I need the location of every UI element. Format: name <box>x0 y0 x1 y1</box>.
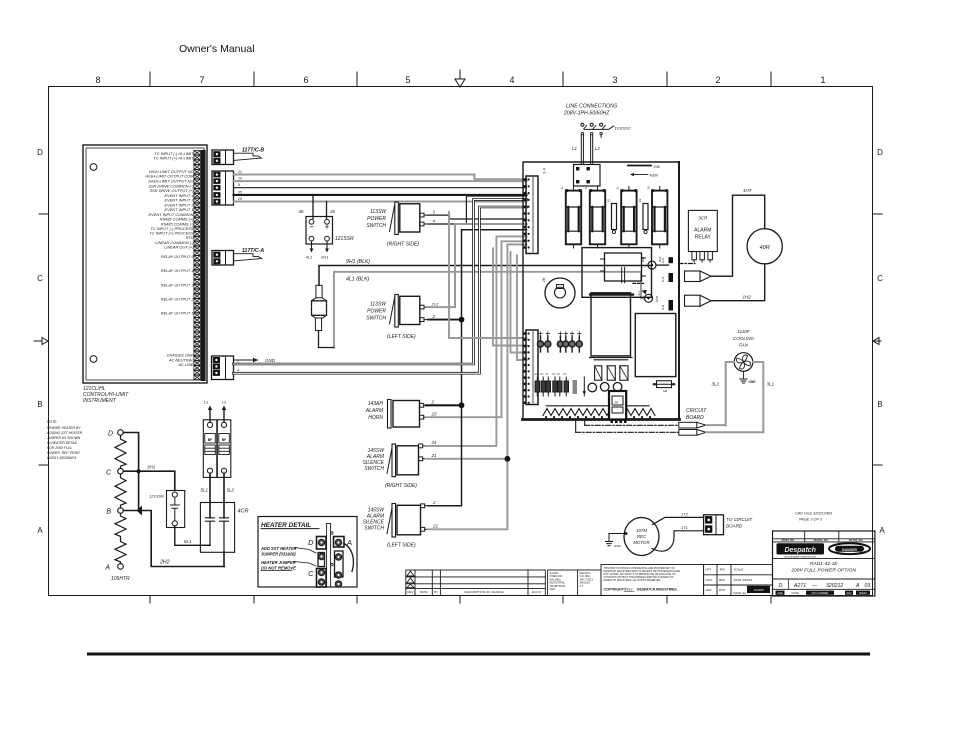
svg-text:A: A <box>104 565 110 572</box>
motor ground <box>606 534 626 546</box>
revision table <box>406 570 546 595</box>
svg-text:D: D <box>108 431 113 438</box>
svg-text:DATE: DATE <box>420 590 428 594</box>
svg-text:R1: R1 <box>607 198 611 202</box>
power switch 113SW left side <box>390 295 429 328</box>
wire from node D <box>123 433 138 511</box>
connector to circuit board <box>704 515 724 535</box>
wire gray to lower board connector d <box>517 256 527 361</box>
svg-text:BF: BF <box>208 438 213 442</box>
svg-text:RELAY OUTPUT 6: RELAY OUTPUT 6 <box>161 254 195 259</box>
svg-text:L2: L2 <box>222 400 227 405</box>
svg-text:1H1: 1H1 <box>661 257 665 263</box>
solid-state relay 121SSR <box>306 217 333 245</box>
buzzer 2M <box>545 278 575 308</box>
svg-text:SUN: SUN <box>655 296 659 302</box>
zone column numbers top <box>95 75 825 85</box>
svg-text:www.despatch-industries.com: www.despatch-industries.com <box>784 556 816 559</box>
center arrow marker left border <box>34 338 48 345</box>
svg-text:113SW: 113SW <box>370 209 387 215</box>
svg-text:REWIRE HEATER BY: REWIRE HEATER BY <box>47 426 81 430</box>
node 117T/C-A flag <box>234 254 262 261</box>
svg-text:21: 21 <box>237 170 242 174</box>
lug base 1H2 <box>669 300 674 311</box>
wire L1 double drop <box>581 135 583 165</box>
title block <box>773 531 875 596</box>
node 4L1 arrow below 121SSR <box>311 241 313 248</box>
mounting hole bottom <box>90 356 97 363</box>
svg-text:LINEAR OUT (+): LINEAR OUT (+) <box>164 245 194 250</box>
snubber 121SSR lower <box>167 491 185 528</box>
svg-text:TC INPUT (+) HI-LIMIT: TC INPUT (+) HI-LIMIT <box>153 155 194 160</box>
wire 1T1 <box>652 531 704 551</box>
svg-text:3H1: 3H1 <box>147 465 156 470</box>
svg-text:40R: 40R <box>760 245 770 251</box>
svg-text:1H1: 1H1 <box>661 276 665 282</box>
svg-text:2: 2 <box>432 314 436 319</box>
circuit breaker L1 pole <box>203 420 217 478</box>
svg-text:ADD SST HEATER: ADD SST HEATER <box>260 546 297 551</box>
wire gray to lower board connector c <box>511 252 527 353</box>
svg-text:3L2: 3L2 <box>712 382 720 387</box>
svg-text:2N: 2N <box>647 186 651 189</box>
svg-text:GND: GND <box>749 380 757 384</box>
wire 1H2 <box>711 264 765 301</box>
capacitor C2 inside 4CR <box>220 518 229 553</box>
wire 5L1 from snubber <box>175 526 210 545</box>
svg-text:(LEFT SIDE): (LEFT SIDE) <box>387 334 416 340</box>
wire 21 right switch <box>426 458 507 460</box>
heater 105HTR node D <box>118 430 124 436</box>
svg-text:9: 9 <box>238 183 240 187</box>
svg-text:1T2: 1T2 <box>681 512 689 517</box>
fuse 1FU inline <box>312 285 335 347</box>
svg-text:121SSR: 121SSR <box>335 236 354 242</box>
sign-off table <box>704 565 773 596</box>
junction dot 113SW-L pin2 <box>459 317 465 323</box>
svg-text:C: C <box>877 274 883 283</box>
svg-text:RELAY OUTPUT 3: RELAY OUTPUT 3 <box>161 282 195 287</box>
svg-text:7: 7 <box>199 75 204 85</box>
svg-text:35: 35 <box>238 190 242 194</box>
svg-text:4L1: 4L1 <box>637 291 641 296</box>
wire 5L2 breaker down <box>223 473 225 518</box>
dash-dot wire under board lower <box>576 431 679 433</box>
svg-text:D: D <box>779 583 783 589</box>
circuit breaker L2 pole <box>217 420 231 478</box>
connector 117T/C-A <box>212 251 234 266</box>
svg-text:RPS: RPS <box>719 578 725 582</box>
svg-text:D: D <box>308 538 314 547</box>
svg-text:MOTOR: MOTOR <box>633 540 650 545</box>
svg-text:3L1: 3L1 <box>767 382 775 387</box>
svg-text:107M: 107M <box>636 528 647 533</box>
svg-text:6: 6 <box>303 75 308 85</box>
transformer T1 <box>591 293 631 356</box>
wire 2 alarm horn <box>426 404 462 406</box>
svg-text:21: 21 <box>431 453 438 458</box>
svg-text:2: 2 <box>715 75 720 85</box>
svg-text:4CR: 4CR <box>238 509 249 515</box>
svg-text:5L2: 5L2 <box>227 488 235 493</box>
zone tick marks left border <box>39 214 48 465</box>
svg-text:DESPATCH INDUSTRIES.: DESPATCH INDUSTRIES. <box>637 588 678 592</box>
svg-text:A: A <box>855 583 860 589</box>
svg-text:RTS: RTS <box>719 588 725 592</box>
svg-text:A T: A T <box>580 584 584 588</box>
svg-text:1T1: 1T1 <box>681 525 688 530</box>
tiny board reference labels <box>543 167 651 202</box>
svg-text:5: 5 <box>405 75 410 85</box>
relay J3 <box>609 391 626 420</box>
proprietary legal block <box>601 565 704 596</box>
cooling fan symbol <box>734 353 753 372</box>
svg-text:GND: GND <box>265 358 276 363</box>
svg-text:2L2: 2L2 <box>431 302 439 307</box>
svg-text:4L1 (BLK): 4L1 (BLK) <box>346 277 370 283</box>
connector J5 five-wire <box>212 171 234 205</box>
node L2 arrow above breaker <box>223 410 225 422</box>
svg-text:35: 35 <box>330 209 336 214</box>
heater 105HTR node C <box>118 468 124 474</box>
varistor between F2/F3 <box>612 204 617 230</box>
svg-text:J6: J6 <box>543 167 546 171</box>
thick footer rule <box>87 653 870 656</box>
svg-text:ADDING SST HEATER: ADDING SST HEATER <box>46 431 83 435</box>
wire 1T2 <box>653 517 704 524</box>
svg-text:320212: 320212 <box>826 583 843 589</box>
heater terminal stack left <box>317 537 327 588</box>
wire 2 left silence switch <box>428 230 527 506</box>
svg-text:PAGE 3 OF 3: PAGE 3 OF 3 <box>799 518 823 522</box>
blower motor 40R <box>747 229 782 264</box>
svg-text:DO NOT REMOVE: DO NOT REMOVE <box>261 565 296 570</box>
alarm horn 143AH <box>388 400 427 429</box>
capacitor unit 4CR <box>200 503 234 553</box>
svg-text:2012: 2012 <box>625 588 633 592</box>
svg-text:C: C <box>308 569 314 578</box>
svg-text:L1: L1 <box>204 400 208 405</box>
board connector J1 upper left <box>526 176 538 254</box>
svg-text:REC: REC <box>637 534 647 539</box>
svg-text:C: C <box>37 274 43 283</box>
power switch 113SW right side <box>390 202 429 235</box>
heater terminal stack right <box>334 537 345 588</box>
resistor R20 horizontal <box>653 383 675 385</box>
wire 10 <box>234 180 527 182</box>
fuse F2 <box>590 186 606 248</box>
svg-text:B: B <box>37 400 42 409</box>
svg-text:POWER: POWER <box>367 309 386 315</box>
svg-text:AC LINE: AC LINE <box>177 362 194 367</box>
svg-text:21: 21 <box>432 524 439 529</box>
wire L2 double drop <box>591 135 593 165</box>
svg-text:117T/C-B: 117T/C-B <box>242 147 264 153</box>
svg-text:3CR: 3CR <box>698 216 708 221</box>
sheet border frame <box>49 87 873 596</box>
svg-text:BF: BF <box>222 438 227 442</box>
curved jumper wire in heater detail <box>344 544 353 572</box>
wire 2 left switch <box>428 319 462 321</box>
svg-text:8: 8 <box>95 75 100 85</box>
transistor Q2 <box>600 383 609 392</box>
wire 9H1 (BLK) <box>319 266 651 286</box>
tiny rotated labels 9H1 BLK / 4L1 BLK <box>637 256 662 302</box>
wire 20 <box>234 201 527 203</box>
svg-text:10: 10 <box>238 177 242 181</box>
svg-text:JRG: JRG <box>719 568 726 572</box>
heater resistor B-A upper <box>115 513 126 539</box>
svg-text:RELAY OUTPUT 4: RELAY OUTPUT 4 <box>161 268 195 273</box>
heater resistor C-B <box>115 474 126 508</box>
svg-text:DESPATCH INDUSTRIES. ALL RIGHT: DESPATCH INDUSTRIES. ALL RIGHTS RESERVED… <box>604 579 662 582</box>
svg-text:SWITCH: SWITCH <box>366 316 386 322</box>
Despatch logo <box>777 543 825 554</box>
wire 35 drop to 121SSR <box>326 202 328 219</box>
motor 107M <box>624 518 659 556</box>
wire 21 left silence switch <box>428 245 527 530</box>
svg-text:A: A <box>346 538 352 547</box>
board input terminal block <box>574 165 601 187</box>
wire 35 <box>234 194 527 196</box>
dashed link on sub-board <box>633 282 644 284</box>
svg-text:REV: REV <box>407 590 413 594</box>
connector 117T/C-B <box>212 150 234 165</box>
svg-text:117T/C-A: 117T/C-A <box>242 248 264 254</box>
svg-text:SERIAL NO.: SERIAL NO. <box>814 538 829 542</box>
svg-text:REV: REV <box>846 592 851 595</box>
wire number labels <box>237 170 242 201</box>
partner oval logo <box>829 543 870 554</box>
terminal strip of instrument <box>201 150 206 381</box>
wire gray to lower board connector b <box>493 249 527 346</box>
wire 3 <box>428 215 527 219</box>
svg-text:5L1: 5L1 <box>184 539 192 544</box>
svg-text:SCALE: SCALE <box>734 568 744 572</box>
svg-text:J3: J3 <box>614 401 618 405</box>
transformer T2 <box>635 314 676 377</box>
svg-text:JUMPER (031926): JUMPER (031926) <box>261 552 296 557</box>
svg-text:A: A <box>37 526 43 535</box>
heater resistor B-A lower <box>115 539 126 564</box>
svg-text:3: 3 <box>433 210 436 215</box>
node 2H1 arrow below 121SSR <box>326 241 328 248</box>
center arrow marker right border <box>873 338 881 345</box>
svg-text:101DISC: 101DISC <box>615 126 631 131</box>
svg-text:2L: 2L <box>616 186 620 189</box>
svg-text:APP: APP <box>706 588 712 592</box>
svg-text:(LEFT SIDE): (LEFT SIDE) <box>387 543 416 549</box>
wire 2L2 <box>428 224 527 307</box>
svg-text:1: 1 <box>820 75 825 85</box>
heater 105HTR node A <box>118 564 124 570</box>
svg-text:IN HEATER DETAIL: IN HEATER DETAIL <box>47 441 78 445</box>
terminal 9H1 on sub-board <box>648 261 656 269</box>
svg-text:A: A <box>879 526 885 535</box>
dashed tie from board to 3CR pins <box>679 263 695 265</box>
svg-text:BY: BY <box>434 590 438 594</box>
svg-text:B: B <box>106 509 111 516</box>
center arrow marker top border <box>455 70 465 87</box>
node 117T/C-B flag <box>234 153 262 160</box>
wire 3L2 fan left <box>726 362 735 425</box>
terminal 4L1 on sub-board <box>645 294 653 302</box>
svg-text:36: 36 <box>298 209 304 214</box>
svg-text:SWITCH: SWITCH <box>364 466 384 472</box>
svg-text:RAD1-42-1E: RAD1-42-1E <box>810 561 838 567</box>
wire 3H1 from node C <box>123 471 175 489</box>
junction dot 145SW wire21 <box>505 456 511 462</box>
relay 3CR box <box>688 210 717 251</box>
svg-text:D: D <box>877 148 883 157</box>
svg-text:B: B <box>877 400 882 409</box>
svg-text:2: 2 <box>236 360 239 364</box>
svg-text:RELAY: RELAY <box>695 235 712 241</box>
svg-text:20: 20 <box>237 197 242 201</box>
svg-text:NOTE:: NOTE: <box>47 420 57 424</box>
svg-text:L2: L2 <box>595 146 601 151</box>
svg-text:C: C <box>106 470 112 477</box>
svg-text:105HTR: 105HTR <box>111 576 130 582</box>
svg-text:1L: 1L <box>560 186 564 189</box>
svg-text:208V-1PH-50/60HZ: 208V-1PH-50/60HZ <box>563 111 610 117</box>
svg-text:SWITCH: SWITCH <box>366 223 386 229</box>
svg-text:3: 3 <box>612 75 617 85</box>
svg-text:5L1: 5L1 <box>200 488 208 493</box>
svg-text:HEATER JUMPER: HEATER JUMPER <box>261 560 296 565</box>
wire 2 AC line (double) <box>234 200 527 365</box>
svg-text:FAN: FAN <box>739 343 749 348</box>
svg-text:LINE CONNECTIONS: LINE CONNECTIONS <box>566 104 618 110</box>
svg-text:(RIGHT SIDE): (RIGHT SIDE) <box>385 483 417 489</box>
svg-text:RELAY OUTPUT 1: RELAY OUTPUT 1 <box>161 311 194 316</box>
svg-text:113SW: 113SW <box>370 302 387 308</box>
capacitor package C12 <box>607 366 615 380</box>
drawing number row <box>779 583 871 589</box>
heater detail inset box <box>258 517 357 588</box>
svg-text:DETAIL NO.: DETAIL NO. <box>849 538 864 542</box>
node X36 jumper mark <box>628 165 651 167</box>
wire 21 <box>234 175 527 180</box>
zone row letters left <box>37 148 43 535</box>
svg-text:104289: 104289 <box>753 588 763 592</box>
svg-text:ALARM: ALARM <box>365 408 384 414</box>
wire 36 drop to 121SSR <box>312 195 314 219</box>
svg-text:CODE: CODE <box>791 592 799 595</box>
svg-text:ECO #: ECO # <box>532 590 541 594</box>
plant address block <box>548 570 601 595</box>
svg-text:M8: M8 <box>663 389 667 393</box>
svg-text:2H1: 2H1 <box>320 255 328 260</box>
svg-text:A271: A271 <box>793 583 806 589</box>
alarm silence switch 145SW right side <box>387 444 426 477</box>
3CR pins <box>692 252 713 263</box>
svg-text:2: 2 <box>432 500 436 505</box>
wire 4 <box>428 196 527 224</box>
spade lug 1HT <box>685 271 701 282</box>
transistor Q3 <box>613 383 622 392</box>
svg-text:23: 23 <box>431 412 438 417</box>
svg-text:4: 4 <box>509 75 514 85</box>
terminal strip sawtooth on board <box>543 409 655 419</box>
svg-text:DFT: DFT <box>706 568 712 572</box>
zone tick marks bottom border <box>150 596 771 603</box>
svg-text:D: D <box>37 148 43 157</box>
svg-text:1H2: 1H2 <box>661 304 665 310</box>
disconnect 101DISC pole 3 <box>600 123 603 126</box>
svg-text:L1: L1 <box>572 146 578 151</box>
svg-text:PRINT NO.: PRINT NO. <box>781 538 794 542</box>
svg-text:1HT: 1HT <box>743 188 753 193</box>
svg-text:AND: AND <box>550 587 556 591</box>
resistor row on board <box>534 374 568 396</box>
svg-text:POWER: POWER <box>367 216 386 222</box>
cooling fan 1110F label <box>733 329 755 348</box>
instrument 121CL/HL outer case <box>83 145 207 383</box>
fuse F3 <box>621 187 637 249</box>
heater 105HTR node B <box>118 508 124 514</box>
transistor Q1 <box>588 383 597 392</box>
svg-text:208V FULL POWER OPTION: 208V FULL POWER OPTION <box>790 568 856 574</box>
zone row letters right <box>877 148 885 535</box>
svg-text:Owner's Manual: Owner's Manual <box>179 43 255 55</box>
svg-text:24: 24 <box>431 440 438 445</box>
svg-text:4L1: 4L1 <box>306 255 313 260</box>
alarm silence switch 145SW left side <box>387 504 428 538</box>
svg-text:CAD FILE 320212403: CAD FILE 320212403 <box>795 512 833 516</box>
heater resistor D-C <box>115 435 126 468</box>
pcb trace above terminal strip <box>546 405 649 407</box>
instrument caption 121CL/HL CONTROL/HI-LIMIT INSTRUMENT <box>83 386 129 404</box>
svg-text:—: — <box>811 583 818 589</box>
svg-text:2M: 2M <box>542 277 546 282</box>
instrument terminal labels <box>145 151 194 367</box>
svg-text:BOARD: BOARD <box>726 524 743 529</box>
svg-text:COOLING: COOLING <box>733 336 755 341</box>
svg-text:TO CIRCUIT: TO CIRCUIT <box>726 517 753 522</box>
spade lug 3L1 <box>679 430 697 436</box>
note text block <box>46 420 83 460</box>
svg-text:121SSR: 121SSR <box>149 494 164 499</box>
disconnect 101DISC pole 1 <box>581 123 584 126</box>
ground arrow from chassis gnd <box>234 359 254 361</box>
svg-text:SHEET: SHEET <box>859 592 868 595</box>
board connector J2 lower left <box>526 330 538 405</box>
svg-text:SIZE: SIZE <box>777 592 783 595</box>
svg-text:1110F: 1110F <box>737 329 751 334</box>
capacitor row on board <box>537 332 582 352</box>
fuse F1 <box>566 186 582 248</box>
svg-text:RELAY OUTPUT 2: RELAY OUTPUT 2 <box>161 296 195 301</box>
title block bottom labels <box>776 591 871 595</box>
wire 24 <box>426 236 527 446</box>
wire from node B with junction arrow <box>123 511 224 567</box>
svg-text:1H2: 1H2 <box>743 295 752 300</box>
zone tick marks top border <box>150 72 771 86</box>
spade lug 1H2 <box>685 295 701 306</box>
lug base 1H1 lower <box>669 273 674 282</box>
svg-text:1N: 1N <box>584 186 588 189</box>
svg-text:1A: 1A <box>543 171 546 175</box>
heater detail center bar <box>327 524 331 588</box>
wire 9 <box>234 187 527 189</box>
main circuit board outline <box>523 162 679 420</box>
svg-text:A30V: A30V <box>650 174 659 178</box>
svg-text:R2: R2 <box>638 198 642 202</box>
svg-text:HORN: HORN <box>368 415 383 421</box>
node L1 arrow above breaker <box>209 410 211 422</box>
diode lead <box>583 377 585 396</box>
